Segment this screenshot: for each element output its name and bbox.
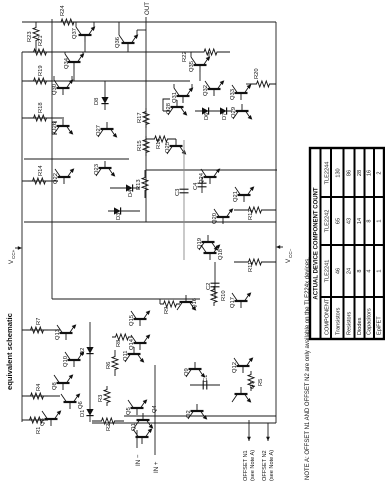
wire bus R18	[22, 117, 64, 119]
node IN-	[136, 430, 138, 448]
svg-text:2: 2	[377, 171, 383, 174]
svg-text:R16: R16	[156, 138, 162, 149]
svg-text:D1: D1	[80, 410, 86, 417]
svg-text:Resistors: Resistors	[347, 311, 353, 335]
resistor R11	[234, 259, 276, 265]
transistor Q20	[217, 216, 230, 218]
svg-text:16: 16	[367, 170, 373, 176]
resistor R19	[28, 78, 52, 84]
svg-text:OFFSET N2: OFFSET N2	[262, 450, 268, 481]
resistor R24	[55, 19, 80, 25]
resistor R22	[191, 49, 230, 55]
svg-text:Q5: Q5	[126, 407, 132, 415]
svg-text:Q21: Q21	[233, 191, 239, 202]
svg-text:Q1: Q1	[131, 423, 137, 431]
svg-text:(see Note A): (see Note A)	[269, 450, 275, 481]
node IN+	[154, 365, 156, 455]
wire Q30 leads	[53, 76, 55, 80]
wire Q28 loop	[163, 99, 170, 111]
svg-text:OUT: OUT	[144, 2, 151, 15]
svg-text:Q33: Q33	[230, 89, 236, 100]
svg-text:Q32: Q32	[203, 85, 209, 96]
svg-text:Q28: Q28	[166, 103, 172, 114]
wire Q34 leads	[64, 52, 66, 54]
node OFFSET N1	[247, 437, 251, 441]
svg-text:R17: R17	[137, 112, 143, 123]
svg-text:R22: R22	[182, 51, 188, 62]
wire bus R19	[22, 80, 190, 82]
capacitor C4	[201, 177, 203, 193]
svg-text:4: 4	[367, 269, 373, 272]
svg-text:Q25: Q25	[165, 142, 171, 153]
diode D7	[220, 107, 227, 114]
wire right bus	[22, 21, 276, 23]
transistor Q28	[171, 106, 184, 108]
transistor Q6	[64, 401, 77, 403]
transistor Q14	[134, 342, 147, 344]
svg-text:R11: R11	[248, 262, 254, 272]
node VCC-	[276, 245, 283, 249]
svg-text:43: 43	[347, 218, 353, 224]
transistor Q33	[235, 92, 248, 94]
svg-text:OFFSET N1: OFFSET N1	[243, 450, 249, 481]
VCC- rail	[275, 22, 277, 423]
svg-text:28: 28	[357, 170, 363, 176]
resistor R1	[26, 417, 46, 423]
svg-text:Q22: Q22	[53, 173, 59, 184]
svg-text:65: 65	[336, 218, 342, 224]
diode D6	[195, 110, 232, 112]
resistor R15	[143, 136, 149, 156]
svg-text:D3: D3	[116, 213, 122, 220]
wire OUT line	[145, 17, 147, 222]
svg-text:Q16: Q16	[192, 298, 198, 309]
svg-text:Q10: Q10	[63, 356, 69, 367]
resistor R17	[143, 108, 149, 128]
transistor Q35	[194, 64, 207, 66]
svg-text:EpiFET: EpiFET	[377, 316, 383, 335]
svg-text:Q35: Q35	[189, 61, 195, 72]
svg-text:Q37: Q37	[72, 28, 78, 39]
svg-text:D7: D7	[222, 113, 228, 120]
node OFFSET N2	[266, 437, 270, 441]
VCC+ rail	[21, 52, 23, 422]
resistor R14	[28, 178, 50, 184]
transistor Q19	[202, 241, 215, 243]
svg-text:Q27: Q27	[96, 125, 102, 136]
svg-text:IN +: IN +	[153, 461, 160, 473]
svg-text:Q36: Q36	[115, 37, 121, 48]
svg-text:C2: C2	[206, 283, 212, 290]
resistor R2	[92, 418, 124, 424]
transistor Q32	[208, 88, 221, 90]
svg-text:Q3: Q3	[40, 418, 46, 426]
svg-text:Diodes: Diodes	[357, 317, 363, 335]
transistor Q37	[79, 34, 92, 36]
transistor Q8	[57, 382, 70, 384]
svg-text:R20: R20	[254, 68, 260, 79]
svg-text:8: 8	[367, 219, 373, 222]
resistor R13	[142, 170, 148, 198]
svg-text:R3: R3	[98, 395, 104, 402]
svg-text:COMPONENT: COMPONENT	[325, 298, 331, 335]
resistor R8	[112, 334, 132, 340]
svg-text:R12: R12	[248, 209, 254, 220]
wire bus R14	[22, 180, 58, 182]
svg-text:C3: C3	[175, 189, 181, 196]
svg-text:Transistors: Transistors	[336, 307, 342, 335]
svg-text:CC+: CC+	[11, 249, 16, 259]
svg-text:R19: R19	[38, 65, 44, 76]
transistor Q21	[238, 194, 251, 196]
svg-text:R24: R24	[60, 5, 66, 16]
svg-text:C4: C4	[193, 182, 199, 190]
svg-text:Q13: Q13	[55, 329, 61, 340]
resistor R18	[28, 115, 52, 121]
resistor R16	[146, 136, 176, 142]
svg-text:D8: D8	[94, 98, 100, 105]
svg-text:130: 130	[336, 168, 342, 177]
svg-text:8: 8	[357, 269, 363, 272]
wire bus D	[52, 298, 200, 300]
transistor Q9	[189, 368, 202, 370]
svg-text:R10: R10	[221, 290, 227, 301]
transistor Q12	[237, 365, 250, 367]
svg-text:V: V	[285, 258, 292, 263]
svg-text:R5: R5	[258, 379, 264, 386]
svg-text:Q6: Q6	[78, 401, 84, 409]
wire bus R7	[22, 329, 60, 331]
svg-text:R9: R9	[164, 307, 170, 314]
transistor Q10	[68, 359, 81, 361]
node VCC+	[15, 246, 22, 250]
svg-text:TLE2241: TLE2241	[325, 260, 331, 283]
svg-text:86: 86	[347, 170, 353, 176]
transistor Q17	[235, 300, 248, 302]
resistor R4	[26, 393, 48, 399]
svg-text:D6: D6	[204, 113, 210, 120]
svg-text:R13: R13	[136, 179, 142, 190]
svg-text:R4: R4	[36, 383, 42, 391]
svg-text:1: 1	[377, 269, 383, 272]
svg-text:(see Note A): (see Note A)	[250, 450, 256, 481]
transistor Q7	[235, 393, 248, 395]
wire bus R21	[22, 51, 146, 53]
resistor R23	[33, 22, 39, 46]
transistor Q16	[180, 301, 193, 303]
resistor R3	[104, 386, 110, 406]
wire Q31 leads	[173, 84, 175, 88]
resistor R12	[234, 207, 276, 213]
svg-text:Q29: Q29	[231, 107, 237, 118]
transistor Q11	[128, 353, 141, 355]
diode D3	[108, 210, 140, 212]
wire Q33 emitter	[249, 84, 251, 85]
wire input bus 1	[124, 415, 276, 417]
diode D8	[104, 81, 106, 110]
diode D2	[89, 322, 91, 422]
svg-text:Q15: Q15	[129, 315, 135, 326]
resistor R5	[248, 371, 254, 391]
transistor Q36	[122, 42, 135, 44]
svg-text:R15: R15	[137, 140, 143, 151]
transistor Q5	[131, 407, 144, 409]
svg-text:Q11: Q11	[123, 350, 129, 361]
svg-text:TLE2242: TLE2242	[325, 210, 331, 233]
capacitor C2	[214, 262, 216, 299]
svg-text:1: 1	[377, 219, 383, 222]
svg-text:24: 24	[347, 268, 353, 274]
transistor Q13	[60, 332, 73, 334]
transistor Q22	[58, 176, 71, 178]
svg-text:R6: R6	[106, 362, 112, 369]
transistor Q34	[68, 61, 81, 63]
wire mid bus C	[146, 169, 277, 171]
svg-text:C1: C1	[203, 375, 209, 382]
transistor Q30	[57, 87, 70, 89]
capacitor C1	[190, 384, 220, 386]
wire R9 top	[159, 299, 161, 304]
capacitor C3	[183, 140, 185, 260]
svg-text:Q8: Q8	[52, 382, 58, 390]
svg-text:R21: R21	[38, 35, 44, 46]
svg-text:CC−: CC−	[288, 248, 293, 258]
transistor Q1	[136, 436, 149, 438]
wire mid bus B	[24, 158, 129, 160]
resistor R10	[211, 286, 217, 306]
wire Q37 leads	[75, 22, 77, 27]
diode D4	[110, 187, 140, 189]
diode D1	[86, 409, 93, 416]
svg-text:R14: R14	[38, 165, 44, 176]
svg-text:R2: R2	[106, 424, 112, 431]
svg-text:R18: R18	[38, 102, 44, 113]
transistor Q4	[137, 419, 150, 421]
svg-text:R7: R7	[36, 318, 42, 325]
svg-text:14: 14	[357, 218, 363, 224]
transistor Q26	[57, 125, 70, 127]
wire input bus 2	[92, 422, 276, 424]
svg-text:Q23: Q23	[94, 164, 100, 175]
svg-text:D4: D4	[128, 189, 134, 197]
svg-text:IN −: IN −	[135, 454, 142, 466]
resistor R21	[28, 49, 52, 55]
wire Q36 leads	[118, 22, 120, 35]
wire bus R1	[22, 419, 48, 421]
transistor Q2	[191, 410, 204, 412]
svg-text:46: 46	[336, 268, 342, 274]
svg-text:Q12: Q12	[232, 362, 238, 373]
transistor Q27	[101, 128, 114, 130]
svg-text:Q2: Q2	[186, 410, 192, 418]
svg-text:Q9: Q9	[184, 368, 190, 376]
svg-text:Q26: Q26	[52, 122, 58, 133]
table actual device component count	[310, 148, 384, 339]
svg-text:Q17: Q17	[230, 297, 236, 308]
resistor R7	[26, 327, 48, 333]
transistor Q15	[134, 318, 147, 320]
rail 2	[51, 19, 53, 299]
resistor R20	[250, 81, 276, 87]
svg-text:ACTUAL DEVICE COMPONENT COUNT: ACTUAL DEVICE COMPONENT COUNT	[314, 187, 320, 300]
svg-text:D2: D2	[80, 348, 86, 355]
svg-text:V: V	[8, 259, 15, 264]
svg-text:Q34: Q34	[64, 57, 70, 69]
transistor Q29	[236, 110, 249, 112]
svg-text:Capacitors: Capacitors	[367, 308, 373, 335]
svg-text:R1: R1	[36, 427, 42, 434]
wire Q35 leads	[190, 52, 192, 57]
svg-text:Q20: Q20	[212, 213, 218, 224]
svg-text:R8: R8	[116, 340, 122, 347]
svg-text:R23: R23	[27, 31, 33, 42]
wire mid bus A	[24, 221, 276, 223]
transistor Q18	[204, 252, 217, 254]
svg-text:equivalent schematic: equivalent schematic	[5, 313, 14, 390]
svg-text:Q30: Q30	[52, 84, 58, 95]
transistor Q31	[177, 95, 190, 97]
transistor Q24	[204, 176, 217, 178]
resistor R9	[160, 301, 180, 307]
resistor R6	[112, 350, 118, 376]
wire bus R4	[22, 395, 60, 397]
transistor Q3	[45, 418, 58, 420]
transistor Q23	[99, 167, 112, 169]
transistor Q25	[170, 145, 183, 147]
svg-text:TLE2244: TLE2244	[325, 162, 331, 185]
svg-text:Q18: Q18	[218, 249, 224, 260]
wire Q26 loop	[52, 122, 57, 134]
